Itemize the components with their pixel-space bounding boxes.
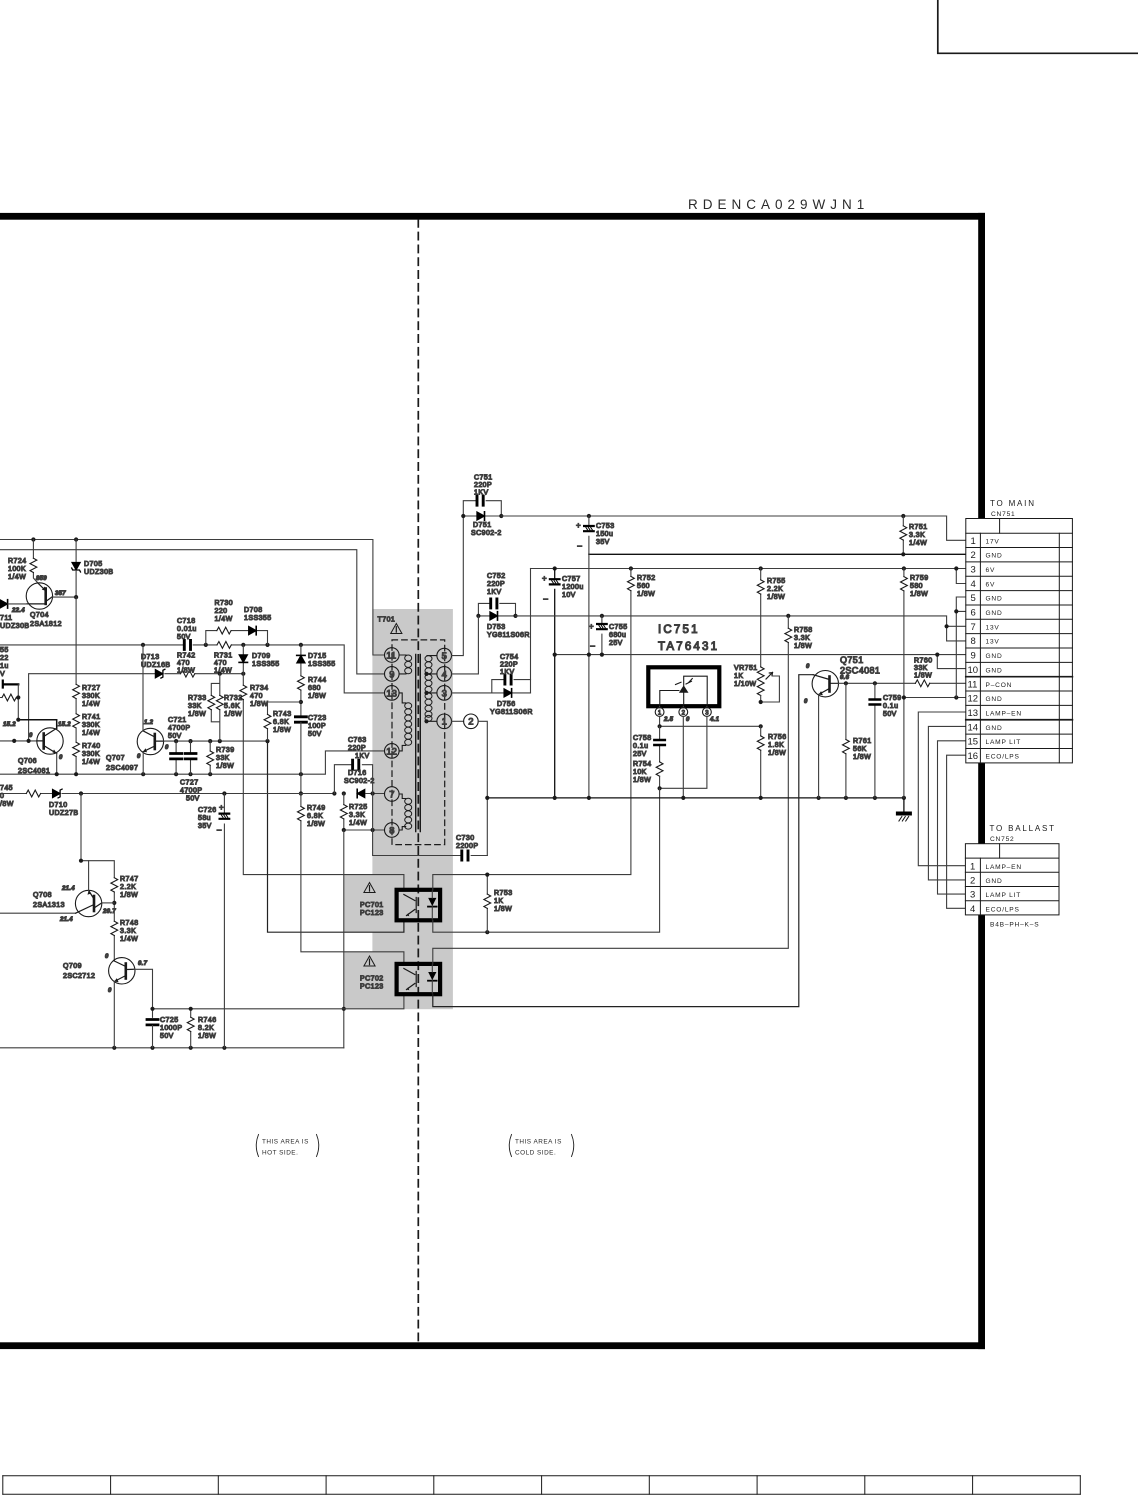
svg-text:20.7: 20.7 (102, 909, 116, 915)
resistor R749 (301, 794, 404, 964)
svg-text:12: 12 (968, 694, 979, 705)
node dot gnd-Q751e (817, 796, 821, 800)
svg-text:+: + (589, 622, 594, 631)
wire R743 PC701 emitter line (268, 741, 404, 932)
svg-text:0: 0 (105, 954, 109, 960)
T701 pin 3 (437, 686, 452, 701)
svg-text:220P: 220P (487, 581, 505, 588)
gray ext box PC701 (344, 875, 404, 933)
svg-text:6V: 6V (986, 581, 996, 588)
svg-text:HOT SIDE.: HOT SIDE. (262, 1150, 298, 1157)
svg-text:1/8W: 1/8W (910, 591, 928, 598)
svg-text:15.2: 15.2 (58, 722, 71, 728)
transistor Q707 2SC4097 (137, 728, 163, 754)
wire Q707 collector to rail (142, 645, 144, 731)
svg-text:R760: R760 (914, 658, 933, 665)
svg-text:1/4W: 1/4W (349, 820, 367, 827)
svg-text:0.1u: 0.1u (883, 703, 898, 710)
wire GND rail to pin2 (589, 553, 966, 555)
wire GND 654 rail to pin9 (555, 654, 966, 656)
svg-text:Q706: Q706 (18, 758, 37, 765)
electrolytic C753 (588, 516, 590, 554)
T701 winding 11-9 (399, 655, 406, 674)
capacitor C721 (175, 741, 177, 774)
wire R733 R732 bracket (211, 674, 220, 741)
svg-text:7: 7 (389, 789, 394, 800)
wire Q707 emitter (142, 752, 144, 774)
diode D711 (edge) (0, 600, 8, 608)
capacitor C727 (190, 741, 192, 774)
T701 pin 8 (385, 823, 400, 838)
capacitor C759 (874, 683, 876, 798)
svg-text:D716: D716 (348, 770, 367, 777)
svg-text:1/8W: 1/8W (637, 591, 655, 598)
wire cold ground rail (487, 797, 904, 799)
svg-text:2SC4097: 2SC4097 (106, 765, 138, 772)
node dot VR751 bottom (759, 700, 763, 704)
svg-text:35V: 35V (198, 823, 212, 830)
node dot 697-hook (954, 695, 958, 699)
svg-text:THIS AREA IS: THIS AREA IS (515, 1139, 562, 1146)
node dot rail774-R739 (208, 772, 212, 776)
svg-text:220: 220 (215, 608, 228, 615)
resistor R751 (902, 516, 904, 554)
T701 pin 9 (385, 667, 400, 682)
node dot hotgnd-C726 (222, 1046, 226, 1050)
svg-text:GND: GND (986, 553, 1003, 560)
node dot D713line-D709 (241, 672, 245, 676)
transistor Q706 2SC4081 (37, 728, 63, 754)
svg-text:100K: 100K (8, 566, 26, 573)
node dot link-793 (299, 791, 303, 795)
svg-text:1/4W: 1/4W (82, 701, 100, 708)
svg-text:0: 0 (804, 699, 808, 705)
optocoupler PC701 (397, 890, 441, 921)
node dot x81-860 (79, 859, 83, 863)
tap dot pin3 (424, 691, 428, 695)
svg-text:R749: R749 (307, 805, 326, 812)
bottom revision table (3, 1476, 1081, 1494)
svg-text:0: 0 (137, 754, 141, 760)
svg-text:+: + (219, 803, 224, 812)
T701 winding 7-8 (399, 794, 406, 830)
IC751 TA76431 body (648, 667, 719, 706)
svg-text:0: 0 (165, 745, 169, 751)
wire C763 D716 loop (334, 765, 372, 794)
wire pin14 to CN752 pin2 (928, 726, 965, 880)
node dot R754-788 (658, 786, 662, 790)
svg-text:0.6: 0.6 (840, 675, 850, 681)
wire x372 to C730 (373, 794, 488, 856)
svg-text:UDZ16B: UDZ16B (141, 662, 171, 669)
transistor Q709 2SC2712 (109, 958, 135, 984)
svg-text:C758: C758 (633, 735, 652, 742)
node dot hotgnd-R746 (189, 1046, 193, 1050)
svg-text:R740: R740 (82, 743, 101, 750)
svg-text:4: 4 (971, 579, 976, 590)
svg-text:D753: D753 (487, 624, 506, 631)
svg-text:15: 15 (968, 737, 979, 748)
svg-text:1u: 1u (0, 663, 9, 670)
svg-text:R748: R748 (120, 920, 139, 927)
capacitor C718 (184, 640, 190, 649)
wire pin3 pin4 hook (956, 569, 966, 584)
diode D708 (249, 626, 257, 634)
svg-text:1/8W: 1/8W (794, 643, 812, 650)
board border thick right (978, 213, 985, 1349)
svg-text:680u: 680u (609, 632, 626, 639)
wire hot ground rail (0, 1047, 344, 1049)
wire C754 loop (492, 680, 531, 693)
node dot gnd-R759col (902, 796, 906, 800)
svg-text:R741: R741 (82, 714, 101, 721)
CN751 pin rows text (968, 536, 1022, 762)
svg-text:GND: GND (986, 610, 1003, 617)
wire Q709 collector line to PC702 (153, 994, 404, 1009)
svg-text:UDZ30B: UDZ30B (84, 569, 114, 576)
IC751 pin 2 circle (682, 706, 684, 708)
capacitor C722 stub (3, 681, 18, 688)
svg-text:TO BALLAST: TO BALLAST (990, 824, 1056, 833)
svg-text:RDENCA029WJN1: RDENCA029WJN1 (688, 197, 869, 212)
node dot D710line-R725 (342, 791, 346, 795)
svg-text:1: 1 (971, 536, 976, 547)
svg-text:22: 22 (0, 655, 9, 662)
wire Q707 base line (164, 740, 268, 742)
svg-text:2SA1812: 2SA1812 (30, 621, 62, 628)
node dot gnd-C753 (587, 796, 591, 800)
cold side note (509, 1135, 574, 1157)
svg-text:9: 9 (971, 651, 976, 662)
svg-text:GND: GND (986, 725, 1003, 732)
node dot R744-C723-R743 (299, 700, 303, 704)
node dot D710line-x81 (79, 791, 83, 795)
node dot base-x28 (27, 739, 31, 743)
wire pin12 line (904, 697, 966, 699)
node dot 654-hook (935, 653, 939, 657)
svg-text:C751: C751 (474, 475, 493, 482)
connector CN751 table (966, 519, 1073, 763)
svg-text:2: 2 (468, 717, 473, 728)
svg-text:C718: C718 (177, 618, 196, 625)
node dot hotgnd-Q709e (112, 1046, 116, 1050)
resistor R740 (75, 728, 77, 774)
resistor R743 (268, 702, 301, 741)
svg-text:PC701: PC701 (360, 902, 384, 909)
svg-text:745: 745 (0, 785, 13, 792)
svg-text:0.7: 0.7 (138, 961, 148, 967)
svg-text:1.2: 1.2 (144, 720, 154, 726)
T701 pin 13 (385, 686, 400, 701)
svg-text:2SC2712: 2SC2712 (63, 973, 95, 980)
hot side note (256, 1135, 319, 1157)
node dot rail774-C727 (188, 772, 192, 776)
resistor R731 (217, 642, 231, 649)
wire Q704 collector (52, 596, 76, 598)
svg-text:3.3K: 3.3K (794, 635, 810, 642)
svg-text:1/8W: 1/8W (767, 594, 785, 601)
svg-text:560: 560 (637, 583, 650, 590)
svg-text:8: 8 (389, 825, 394, 836)
svg-text:580: 580 (910, 583, 923, 590)
svg-text:33K: 33K (188, 703, 202, 710)
svg-text:0.1u: 0.1u (633, 743, 648, 750)
capacitor C763 (353, 760, 359, 769)
svg-text:P–CON: P–CON (986, 682, 1013, 689)
svg-text:C755: C755 (609, 624, 628, 631)
node dot 6V-hook (954, 566, 958, 570)
svg-text:C759: C759 (883, 695, 902, 702)
wire node2 to cold gnd (478, 721, 487, 855)
T701 pin 7 (385, 787, 400, 802)
svg-text:GND: GND (986, 878, 1003, 885)
svg-text:C753: C753 (596, 523, 615, 530)
svg-text:R733: R733 (188, 695, 207, 702)
svg-text:2.2K: 2.2K (120, 884, 136, 891)
wire D710 line (0, 793, 384, 795)
node dot Q704c-D705 (74, 595, 78, 599)
svg-text:ECO/LPS: ECO/LPS (986, 906, 1020, 913)
node dot rail1-R724 (31, 537, 35, 541)
resistor R748 (111, 921, 118, 935)
svg-text:25V: 25V (633, 751, 647, 758)
svg-text:Q751: Q751 (840, 655, 864, 665)
wire pin4 to D753 (452, 616, 479, 674)
title block box top right (938, 0, 1138, 53)
svg-text:25V: 25V (609, 640, 623, 647)
svg-text:680: 680 (308, 685, 321, 692)
T701 pin 4 (437, 667, 452, 682)
node dot 697-R759col (902, 695, 906, 699)
svg-text:C754: C754 (500, 654, 519, 661)
diode D753 (478, 615, 515, 617)
node dot base-C721 (174, 739, 178, 743)
T701 pin 5 (437, 648, 452, 663)
node dot rail774-C723 (299, 772, 303, 776)
svg-text:R742: R742 (177, 653, 196, 660)
svg-text:50V: 50V (883, 711, 897, 718)
transistor Q704 2SA1812 (26, 583, 52, 609)
svg-text:10: 10 (968, 665, 979, 676)
wire D713 line (29, 674, 244, 741)
node dot base-x14 (12, 739, 16, 743)
potentiometer VR751 (757, 667, 764, 681)
svg-text:/8W: /8W (0, 801, 14, 808)
svg-text:1SS355: 1SS355 (252, 661, 280, 668)
svg-text:50V: 50V (177, 634, 191, 641)
svg-text:−: − (590, 641, 595, 651)
wire Q751 collector line (838, 682, 965, 684)
wire Q708 base (0, 912, 76, 914)
svg-text:1/8W: 1/8W (853, 754, 871, 761)
node dot gnd-C759 (873, 796, 877, 800)
resistor R747 (111, 878, 118, 892)
node 2 circle (464, 714, 479, 729)
wire hot common rail to T701 pin 12 (0, 751, 384, 774)
node dot 654-C753 (587, 653, 591, 657)
svg-text:100P: 100P (308, 723, 326, 730)
svg-text:4: 4 (442, 669, 447, 680)
resistor R755 (760, 569, 762, 667)
node dot base-R732 (218, 739, 222, 743)
node dot hook-pin6 (954, 609, 958, 613)
wire 6V rail to pin3 (531, 568, 966, 570)
svg-text:−: − (217, 825, 222, 835)
svg-text:1/4W: 1/4W (215, 616, 233, 623)
node dot rail774-Q707e (141, 772, 145, 776)
svg-text:0: 0 (108, 988, 112, 994)
wire R730 D708 loop (206, 631, 268, 645)
wire pin7 branch (947, 625, 966, 627)
node dot base-R739 (208, 739, 212, 743)
T701 pin 1 (437, 714, 452, 729)
svg-text:13: 13 (386, 688, 397, 699)
svg-text:R747: R747 (120, 876, 139, 883)
svg-text:0: 0 (686, 717, 690, 723)
node dot base-R743 (265, 739, 269, 743)
svg-text:+: + (542, 574, 547, 583)
wire Q751 base from PC702 (433, 675, 813, 1007)
electrolytic C726 (223, 794, 225, 1048)
node dot D753 left (476, 614, 480, 618)
svg-text:THIS AREA IS: THIS AREA IS (262, 1139, 309, 1146)
resistor R761 (845, 683, 847, 798)
svg-text:R759: R759 (910, 575, 929, 582)
wire 17V rail to pin1 (501, 516, 966, 540)
capacitor C725 (147, 1020, 158, 1025)
node dot R746-1008 (189, 1007, 193, 1011)
svg-text:1KV: 1KV (487, 589, 502, 596)
svg-text:GND: GND (986, 667, 1003, 674)
svg-text:D715: D715 (308, 653, 327, 660)
wire C753 column down (588, 554, 590, 798)
svg-text:220P: 220P (474, 482, 492, 489)
svg-text:1/8W: 1/8W (188, 711, 206, 718)
resistor R725 (343, 794, 345, 831)
zener D710 (53, 789, 63, 798)
svg-text:GND: GND (986, 653, 1003, 660)
electrolytic C755 (601, 616, 603, 655)
svg-text:+: + (576, 521, 581, 530)
svg-text:5: 5 (971, 593, 976, 604)
svg-text:−: − (577, 541, 582, 551)
svg-text:9: 9 (389, 669, 394, 680)
svg-text:50V: 50V (308, 731, 322, 738)
svg-text:R752: R752 (637, 575, 656, 582)
wire pin5 riser to D751 (452, 516, 464, 656)
svg-text:13V: 13V (986, 624, 1000, 631)
svg-text:1K: 1K (494, 898, 503, 905)
wire PC701 cathode riser (433, 788, 660, 932)
resistor R745 (26, 790, 40, 797)
svg-text:0.01u: 0.01u (177, 626, 197, 633)
svg-text:R761: R761 (853, 738, 872, 745)
node dot rail774-C721 (174, 772, 178, 776)
svg-text:1/8W: 1/8W (216, 763, 234, 770)
node dot pin8-R725 (342, 828, 346, 832)
node dot gnd-C730riser (485, 796, 489, 800)
svg-text:1SS355: 1SS355 (308, 661, 336, 668)
node dot 6V-R759 (902, 566, 906, 570)
resistor R724 (33, 540, 38, 584)
svg-text:LAMP–EN: LAMP–EN (986, 711, 1022, 718)
node dot hotgnd-C725 (150, 1046, 154, 1050)
svg-text:1/10W: 1/10W (734, 681, 756, 688)
capacitor C758 (659, 726, 661, 762)
wire Q706 collector black (18, 720, 56, 729)
svg-text:SC902-2: SC902-2 (471, 530, 502, 537)
node dot x18-697 (16, 695, 20, 699)
capacitor C751 (477, 496, 483, 505)
svg-text:3.3K: 3.3K (349, 812, 365, 819)
svg-text:1/8W: 1/8W (307, 821, 325, 828)
wire Q708 network (81, 794, 114, 962)
node dot rail-x143 (141, 643, 145, 647)
transformer T701 dashed outline (392, 640, 445, 845)
svg-text:C730: C730 (456, 835, 475, 842)
svg-text:GND: GND (986, 696, 1003, 703)
svg-text:16: 16 (968, 751, 979, 762)
svg-text:1/8W: 1/8W (177, 668, 195, 675)
svg-text:1K: 1K (734, 673, 743, 680)
svg-text:2SC4081: 2SC4081 (840, 666, 880, 676)
svg-text:C721: C721 (168, 717, 187, 724)
svg-text:220P: 220P (500, 662, 518, 669)
wire 6V riser (530, 569, 532, 680)
node dot gnd-IC pin2 (681, 796, 685, 800)
node dot pin1-726 (658, 724, 662, 728)
diode D716 (357, 789, 365, 797)
node dot D710line-C726 (222, 791, 226, 795)
svg-text:B4B–PH–K–S: B4B–PH–K–S (990, 922, 1039, 929)
svg-text:1000P: 1000P (160, 1025, 183, 1032)
svg-text:11: 11 (968, 679, 978, 690)
wire T701 pin8 line (344, 829, 385, 831)
svg-text:1/8W: 1/8W (308, 693, 326, 700)
capacitor C730 (462, 851, 468, 860)
resistor R746 (190, 1009, 192, 1048)
wire main B+ rail to T701 pin 13 (0, 645, 384, 693)
svg-text:R724: R724 (8, 558, 27, 565)
svg-text:R732: R732 (224, 695, 243, 702)
wire 13V rail (516, 616, 966, 641)
svg-text:6: 6 (971, 608, 976, 619)
resistor R727 (75, 597, 77, 714)
capacitor C752 (491, 599, 497, 608)
resistor R733 (208, 695, 215, 709)
svg-text:13: 13 (968, 708, 979, 719)
svg-text:0: 0 (0, 793, 4, 800)
node dot 17V-C753 (587, 514, 591, 518)
svg-text:10V: 10V (562, 592, 576, 599)
svg-text:−: − (543, 594, 548, 604)
T701 secondary winding (425, 656, 432, 722)
svg-text:2: 2 (970, 876, 975, 887)
svg-text:3: 3 (442, 688, 447, 699)
wire pin5 pin6 pin12 hook (956, 597, 966, 698)
svg-text:2SA1313: 2SA1313 (33, 902, 65, 909)
node dot D753 right (513, 614, 517, 618)
svg-text:VR751: VR751 (734, 665, 758, 672)
node dot D710line-x372 (371, 791, 375, 795)
svg-text:D713: D713 (141, 654, 160, 661)
svg-text:1/8W: 1/8W (198, 1033, 216, 1040)
svg-text:3.3K: 3.3K (909, 532, 925, 539)
svg-text:0: 0 (59, 755, 63, 761)
node dot Q708c-R747 (112, 901, 116, 905)
node dot rail-loop right (265, 643, 269, 647)
svg-text:COLD SIDE.: COLD SIDE. (515, 1150, 556, 1157)
